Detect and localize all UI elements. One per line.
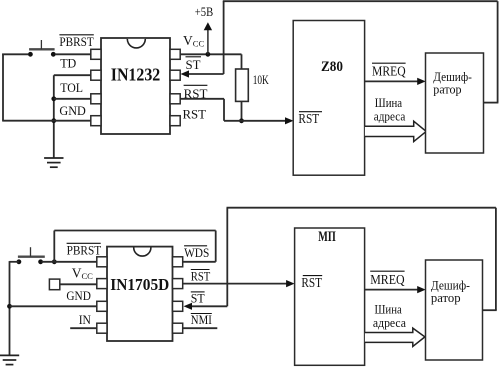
wire: TD pin <box>54 74 91 76</box>
wire: S2 right contact to U2 PBRST pin <box>42 261 97 263</box>
U2 pin NMI box <box>173 323 183 333</box>
U1 pin VCC box <box>170 49 180 59</box>
wire: Z80 MREQ to decoder U3 <box>365 80 421 82</box>
resistor R1 10K body <box>236 69 249 101</box>
U2 pin IN box <box>97 323 107 333</box>
svg-text:MREQ: MREQ <box>370 273 404 288</box>
bus arrow: Z80 address bus to U3 <box>365 121 426 141</box>
svg-text:ратор: ратор <box>433 82 461 96</box>
overline for MREQ label (bottom) <box>370 270 404 272</box>
arrowhead into MP RST <box>286 280 295 287</box>
U1 pin RST box <box>170 116 180 126</box>
overline for MREQ label (top) <box>372 62 406 64</box>
wire: +5B stem <box>207 29 209 54</box>
block U3 decoder (top) <box>426 53 484 153</box>
IC U2 IN1705D body <box>107 247 173 341</box>
U1 orientation notch <box>127 39 145 48</box>
pushbutton S1 <box>29 40 54 49</box>
overline for MP RST label <box>303 275 322 277</box>
pushbutton S2 <box>18 247 45 257</box>
overline for RST label (U2) <box>191 269 210 271</box>
arrow: +5B supply <box>204 22 212 30</box>
U2 pin VCC box <box>97 279 107 289</box>
svg-text:IN: IN <box>79 312 92 327</box>
overline for PBRST label <box>59 34 93 36</box>
wire: feedback right vertical (bottom) <box>495 208 497 311</box>
svg-text:10K: 10K <box>253 72 270 87</box>
U1 pin TD box <box>91 70 101 80</box>
arrowhead MREQ into U3 <box>417 78 426 85</box>
arrowhead into U2 ST pin <box>184 303 193 310</box>
overline for ST label (U2) <box>191 291 205 293</box>
U1 pin ST box <box>170 70 180 80</box>
svg-text:адреса: адреса <box>374 109 406 124</box>
wire: feedback vertical down to U2 ST <box>226 208 228 307</box>
wire: feedback into U1 ST <box>188 73 224 75</box>
wire: left vertical (S2 to ground) <box>9 261 11 355</box>
U1 pin TOL box <box>91 94 101 104</box>
S1 right contact dot <box>51 52 56 57</box>
S2 left contact dot <box>17 259 22 264</box>
wire: VCC terminal to U2 pin <box>60 283 97 285</box>
U2 pin PBRST box <box>97 257 107 267</box>
overline for NMI label <box>191 313 212 315</box>
U1 pin GND box <box>91 116 101 126</box>
svg-text:+5B: +5B <box>195 5 213 19</box>
wire: feedback horizontal (bottom) <box>227 207 496 209</box>
wire: GND horizontal (U2) <box>10 305 97 307</box>
wire: PBRST to S1 left contact <box>2 53 28 55</box>
svg-text:RST: RST <box>298 111 319 126</box>
wire: VCC pin to pull-up corner <box>180 53 241 55</box>
wire: IN pin stub <box>70 327 97 329</box>
bus arrow: MP address bus to U4 <box>365 328 425 346</box>
U2 orientation notch <box>134 248 151 257</box>
S1 left contact dot <box>28 52 33 57</box>
wire: RST(inv) corner down <box>223 99 225 121</box>
svg-text:адреса: адреса <box>373 315 406 330</box>
wire: U2 WDS pin <box>183 261 216 263</box>
ground symbol (top circuit) <box>44 158 63 167</box>
wire: left vertical (PBRST net to GND) <box>2 54 4 121</box>
overline for ST label <box>186 56 202 58</box>
wire: GND horizontal <box>2 120 91 122</box>
wire: WDS loop right vertical <box>215 231 217 262</box>
U1 pin PBRST box <box>91 49 101 59</box>
S2 right contact dot <box>38 259 43 264</box>
wire: feedback vertical down to ST <box>223 1 225 74</box>
ground symbol (bottom circuit) <box>0 355 19 364</box>
block U4 decoder (bottom) <box>426 260 483 360</box>
IC U1 IN1232 body <box>101 38 170 134</box>
wire: R1 bottom to RST net <box>241 101 243 120</box>
arrowhead into Z80 RST <box>285 117 294 124</box>
svg-text:ратор: ратор <box>431 291 461 305</box>
wire: corner down to R1 <box>241 54 243 69</box>
wire: top feedback horizontal <box>223 0 498 2</box>
svg-text:ST: ST <box>186 57 201 72</box>
svg-text:TOL: TOL <box>60 80 83 95</box>
open terminal square (U2 VCC) <box>49 279 59 290</box>
overline for PBRST label (U2) <box>67 242 101 244</box>
svg-text:IN1705D: IN1705D <box>110 275 169 294</box>
wire: RST net to Z80 <box>224 120 289 122</box>
wire: S1 right contact to U1 PBRST pin <box>55 53 91 55</box>
wire: WDS loop left vertical <box>53 231 55 262</box>
junction: TOL-TD net <box>51 96 56 101</box>
svg-text:RST: RST <box>301 275 322 290</box>
wire: NMI stub <box>183 327 218 329</box>
wire: MP MREQ to decoder U4 <box>365 289 421 291</box>
arrowhead MREQ into U4 <box>417 286 426 293</box>
wire: decoder U4 output <box>483 309 497 311</box>
junction: GND net <box>51 118 56 123</box>
overline for WDS label <box>184 245 207 247</box>
junction: WDS loop at S2 <box>52 259 57 264</box>
U1 pin RST(inv) box <box>170 94 180 104</box>
wire: WDS loop horizontal <box>54 230 215 232</box>
block Z80 (CPU) <box>293 21 364 176</box>
wire: feedback into U2 ST <box>191 305 227 307</box>
wire: corner to S2 left contact <box>10 261 19 263</box>
svg-text:PBRST: PBRST <box>67 242 102 257</box>
wire: U1 RST(inv) horizontal <box>180 98 224 100</box>
junction: GND net (bottom) <box>7 304 12 309</box>
overline for Z80 RST label <box>299 111 322 113</box>
U2 pin GND box <box>97 301 107 311</box>
svg-text:IN1232: IN1232 <box>111 65 161 85</box>
svg-text:МП: МП <box>318 229 336 245</box>
U2 pin ST box <box>173 301 183 311</box>
svg-text:GND: GND <box>59 103 85 118</box>
wire: TD/TOL/GND vertical <box>53 75 55 158</box>
svg-text:WDS: WDS <box>184 245 209 260</box>
U2 pin WDS box <box>173 257 183 267</box>
block MP (microprocessor) <box>295 228 365 365</box>
svg-text:RST: RST <box>183 107 207 122</box>
svg-text:MREQ: MREQ <box>372 65 406 80</box>
svg-text:TD: TD <box>60 56 76 71</box>
junction: R1 with RST net <box>239 118 244 123</box>
svg-text:Z80: Z80 <box>321 59 343 75</box>
wire: feedback right vertical <box>497 1 499 102</box>
junction: +5B tap on VCC wire <box>206 52 211 57</box>
wire: TOL pin <box>54 98 91 100</box>
svg-text:RST: RST <box>191 269 211 284</box>
arrowhead into U1 ST pin <box>181 70 190 77</box>
wire: decoder U3 output <box>484 102 499 104</box>
U2 pin RST box <box>173 279 183 289</box>
svg-text:NMI: NMI <box>191 312 212 327</box>
overline for RST label (U1) <box>184 84 208 86</box>
wire: U2 RST(inv) to MP <box>183 283 290 285</box>
svg-text:ST: ST <box>191 290 205 305</box>
svg-text:PBRST: PBRST <box>59 34 93 49</box>
svg-text:GND: GND <box>66 288 91 303</box>
